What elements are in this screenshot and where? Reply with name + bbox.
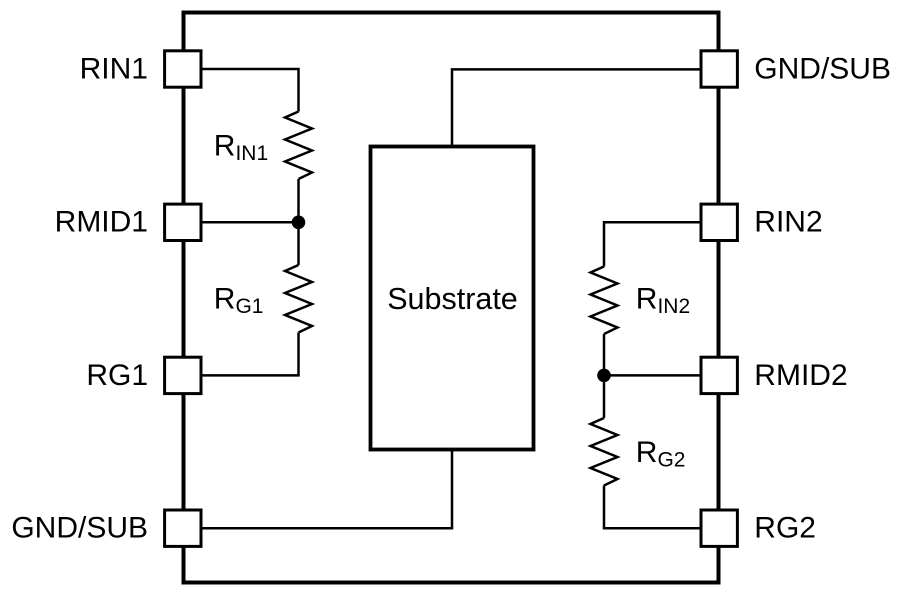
- svg-text:GND/SUB: GND/SUB: [754, 52, 891, 85]
- svg-text:RMID1: RMID1: [55, 206, 148, 239]
- svg-text:RMID2: RMID2: [754, 359, 847, 392]
- svg-text:RG2: RG2: [754, 512, 816, 545]
- svg-text:RG2: RG2: [636, 436, 686, 472]
- svg-text:RG1: RG1: [86, 359, 148, 392]
- svg-text:Substrate: Substrate: [387, 282, 518, 316]
- svg-text:RIN2: RIN2: [636, 283, 690, 319]
- svg-text:RG1: RG1: [214, 283, 264, 319]
- svg-text:RIN1: RIN1: [80, 52, 148, 85]
- svg-text:RIN2: RIN2: [754, 206, 822, 239]
- svg-text:GND/SUB: GND/SUB: [11, 512, 148, 545]
- svg-text:RIN1: RIN1: [214, 129, 268, 165]
